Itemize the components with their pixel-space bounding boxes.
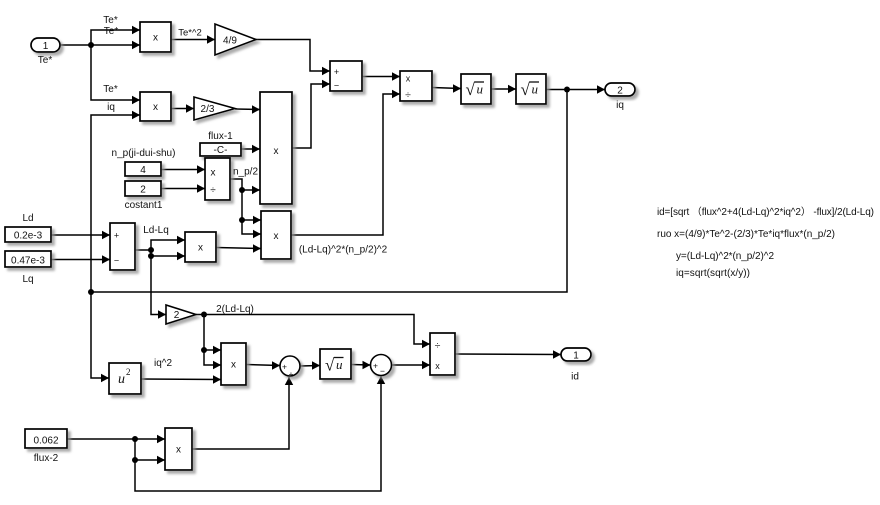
label Te* wire2 xyxy=(104,26,119,37)
constant flux-1 -C- xyxy=(200,143,241,156)
label iq^2 xyxy=(154,358,172,369)
svg-text:iq^2: iq^2 xyxy=(154,358,172,369)
gain 4/9 xyxy=(215,24,256,55)
svg-text:+: + xyxy=(114,231,119,241)
sqrt3 xyxy=(320,349,351,379)
wire sqrt1 to sqrt2 xyxy=(491,85,516,93)
svg-text:n_p(ji-dui-shu): n_p(ji-dui-shu) xyxy=(112,148,176,159)
svg-text:Te*: Te* xyxy=(103,84,118,95)
svg-text:Te*: Te* xyxy=(38,55,53,66)
svg-text:u: u xyxy=(477,82,484,97)
label Ld-Lq xyxy=(143,225,169,236)
wire constant flux-1 to product P1 input2 xyxy=(241,145,260,153)
annotation line 4 xyxy=(676,268,750,279)
wire constant 2 to product U2 input2 xyxy=(161,184,205,192)
node iq feedback junction xyxy=(88,289,94,295)
svg-text:x: x xyxy=(231,360,236,371)
multiply M5 (Ld-Lq squared) xyxy=(185,232,216,262)
svg-text:y=(Ld-Lq)^2*(n_p/2)^2: y=(Ld-Lq)^2*(n_p/2)^2 xyxy=(676,251,774,262)
svg-text:x: x xyxy=(435,361,440,371)
label Lq xyxy=(22,274,33,285)
sum1 (+ -) xyxy=(330,61,362,91)
label Te* under inport 1 xyxy=(38,55,53,66)
wire Ld-Lq to multiply M5 input2 xyxy=(151,250,185,260)
svg-text:÷: ÷ xyxy=(405,89,411,101)
wire u^2 output iq^2 to product M3 input3 xyxy=(141,375,221,383)
svg-text:x: x xyxy=(211,168,216,179)
constant 2 costant1 xyxy=(125,181,161,196)
svg-text:iq: iq xyxy=(616,100,624,111)
svg-text:Te*^2: Te*^2 xyxy=(178,28,201,39)
wire M5 output to P2 input3 xyxy=(216,244,261,252)
svg-text:iq=sqrt(sqrt(x/y)): iq=sqrt(sqrt(x/y)) xyxy=(676,268,750,279)
svg-text:id=[sqrt （flux^2+4(Ld-Lq)^2*iq: id=[sqrt （flux^2+4(Ld-Lq)^2*iq^2） -flux]… xyxy=(657,206,874,218)
product P2 (big 2) xyxy=(261,211,291,259)
wire inport1 to junction xyxy=(60,44,91,46)
node n_p/2 junction 1 xyxy=(239,187,245,193)
svg-text:iq: iq xyxy=(107,102,115,113)
wire flux-2 to multiply M4 input2 xyxy=(135,439,165,464)
sum circle S2 (+ -) xyxy=(371,355,392,377)
sum circle S1 (+ +) xyxy=(280,356,300,379)
svg-text:flux-2: flux-2 xyxy=(34,453,59,464)
outport 1 id xyxy=(561,348,591,361)
wire gain G3 output 2(Ld-Lq) to divide D1 xyxy=(196,315,430,349)
svg-text:Lq: Lq xyxy=(22,274,33,285)
product M1 (Te* x Te*) xyxy=(140,22,171,52)
wire sum1 output to divide D2 x input xyxy=(362,72,400,80)
svg-text:2: 2 xyxy=(126,367,131,377)
multiply M4 (flux^2) xyxy=(165,428,192,470)
wire junction down to product M2 input1 xyxy=(91,45,140,104)
gain 2/3 xyxy=(194,97,235,120)
label Te*^2 xyxy=(178,28,201,39)
wire Ld-Lq down to gain G3 xyxy=(151,256,166,319)
svg-text:2/3: 2/3 xyxy=(201,104,215,115)
svg-text:-C-: -C- xyxy=(214,145,228,156)
svg-text:Ld: Ld xyxy=(22,213,33,224)
wire n_p/2 to P1 input3 xyxy=(242,186,260,194)
svg-text:4/9: 4/9 xyxy=(223,36,237,47)
wire junction to product M1 input1 xyxy=(91,26,140,45)
svg-text:2(Ld-Lq): 2(Ld-Lq) xyxy=(216,304,254,315)
svg-text:0.062: 0.062 xyxy=(33,436,58,447)
svg-text:−: − xyxy=(334,81,339,91)
svg-text:x: x xyxy=(274,146,279,157)
label (Ld-Lq)^2*(n_p/2)^2 xyxy=(299,245,388,256)
label n_p/2 xyxy=(233,167,258,178)
product M3 (3 inputs) xyxy=(221,343,246,385)
product M2 (Te* x iq) xyxy=(140,92,171,121)
svg-text:√: √ xyxy=(325,356,335,375)
svg-text:0.47e-3: 0.47e-3 xyxy=(11,256,45,267)
svg-text:Ld-Lq: Ld-Lq xyxy=(143,225,169,236)
node n_p/2 junction 2 xyxy=(239,217,245,223)
sum2 (+ -) Ld-Lq xyxy=(110,223,135,270)
wire P1 output to sum1 minus input xyxy=(292,80,330,148)
sqrt1 xyxy=(461,74,491,104)
svg-text:+: + xyxy=(334,67,339,77)
svg-text:1: 1 xyxy=(43,41,49,52)
wire gain 4/9 to sum1 plus input xyxy=(256,40,330,76)
constant 0.062 flux-2 xyxy=(25,429,67,448)
label id under outport 1 xyxy=(571,372,579,383)
wire S2 output to divide D1 x input xyxy=(392,361,431,369)
node Te* junction xyxy=(88,42,94,48)
math function u^2 xyxy=(109,363,141,394)
wire constant flux-2 output xyxy=(67,438,135,440)
svg-text:÷: ÷ xyxy=(435,340,441,352)
label iq wire xyxy=(107,102,115,113)
node flux-2 junction 1 xyxy=(132,436,138,442)
divide U2 (n_p/2) xyxy=(205,158,230,200)
label Ld xyxy=(22,213,33,224)
svg-text:2: 2 xyxy=(140,185,146,196)
label 2(Ld-Lq) xyxy=(216,304,254,315)
wire n_p/2 to P2 input1 xyxy=(242,216,261,224)
label iq under outport 2 xyxy=(616,100,624,111)
wire junction to product M1 input2 xyxy=(91,41,140,49)
wire constant 4 to product U2 input1 xyxy=(161,165,205,173)
label Te* wire1 xyxy=(103,15,118,26)
wire iq feedback to product M2 input2 xyxy=(91,111,140,382)
wire M2 output to gain 2/3 xyxy=(171,104,194,112)
svg-text:x: x xyxy=(406,74,411,84)
wire M3 output to sum circle S1 xyxy=(246,361,280,369)
svg-text:x: x xyxy=(153,102,158,113)
svg-text:x: x xyxy=(274,231,279,242)
svg-text:4: 4 xyxy=(140,165,146,176)
divide D1 (divide over x) xyxy=(430,333,455,375)
svg-text:+: + xyxy=(289,369,294,379)
wire constant Ld to sum2 plus input xyxy=(51,231,110,239)
node Ld-Lq junction 2 xyxy=(148,253,154,259)
divide D2 (x over divide) xyxy=(400,71,432,101)
label flux-1 xyxy=(208,131,233,142)
svg-text:u: u xyxy=(532,82,539,97)
inport 1 Te* xyxy=(31,38,60,52)
svg-text:ruo x=(4/9)*Te^2-(2/3)*Te*iq*f: ruo x=(4/9)*Te^2-(2/3)*Te*iq*flux*(n_p/2… xyxy=(657,229,835,240)
wire D1 output to outport 1 xyxy=(455,350,561,358)
svg-text:−: − xyxy=(380,366,385,376)
svg-text:n_p/2: n_p/2 xyxy=(233,167,258,178)
svg-text:1: 1 xyxy=(573,350,579,361)
wire flux-2 to multiply M4 input1 xyxy=(135,435,165,443)
svg-text:x: x xyxy=(176,445,181,456)
gain G3 value 2 xyxy=(166,305,196,324)
wire gain 2/3 to product P1 input1 xyxy=(235,105,260,113)
svg-text:u: u xyxy=(118,372,125,387)
wire S1 output to sqrt3 xyxy=(300,361,320,369)
svg-text:+: + xyxy=(373,361,378,371)
svg-text:(Ld-Lq)^2*(n_p/2)^2: (Ld-Lq)^2*(n_p/2)^2 xyxy=(299,245,388,256)
constant 4 n_p xyxy=(125,162,161,176)
wire U2 output n_p/2 down xyxy=(230,179,261,238)
wire sqrt2 to outport 2 xyxy=(546,85,605,93)
wire M1 output Te*^2 to gain 4/9 xyxy=(171,35,215,43)
wire sum2 output Ld-Lq xyxy=(135,249,151,251)
svg-text:0.2e-3: 0.2e-3 xyxy=(14,231,43,242)
label flux-2 xyxy=(34,453,59,464)
node Ld-Lq junction 1 xyxy=(148,247,154,253)
svg-text:x: x xyxy=(198,243,203,254)
node 2(Ld-Lq) junction 2 xyxy=(201,347,207,353)
wire iq feedback horizontal from sqrt output xyxy=(91,90,567,293)
node 2(Ld-Lq) junction xyxy=(201,312,207,318)
svg-text:2: 2 xyxy=(174,310,180,321)
svg-text:√: √ xyxy=(521,80,531,99)
svg-text:flux-1: flux-1 xyxy=(208,131,233,142)
wire 2(Ld-Lq) down to product M3 input2 xyxy=(204,315,221,370)
constant 0.47e-3 Lq xyxy=(5,251,51,267)
svg-text:−: − xyxy=(114,256,119,266)
label Te* wire3 xyxy=(103,84,118,95)
annotation line 1 xyxy=(657,206,874,218)
svg-text:u: u xyxy=(336,357,343,372)
wire M4 output flux^2 to sum circle S1 xyxy=(192,377,293,449)
svg-text:÷: ÷ xyxy=(210,185,216,196)
product P1 (big) xyxy=(260,92,292,204)
annotation line 2 xyxy=(657,229,835,240)
wire D2 output to sqrt1 xyxy=(432,84,461,92)
wire flux-2 bottom path to sum circle S2 xyxy=(135,376,385,491)
node flux-2 junction 2 xyxy=(132,457,138,463)
svg-text:Te*: Te* xyxy=(103,15,118,26)
svg-text:Te*: Te* xyxy=(104,26,119,37)
label costant1 xyxy=(125,200,163,211)
wire P2 output up to divide D2 divide input xyxy=(291,90,400,235)
wire sqrt3 output to sum circle S2 xyxy=(351,361,371,369)
sqrt2 xyxy=(516,74,546,104)
outport 2 iq xyxy=(605,83,635,96)
wire 2(Ld-Lq) to product M3 input1 xyxy=(204,346,221,354)
annotation line 3 xyxy=(676,251,774,262)
wire constant Lq to sum2 minus input xyxy=(51,255,110,263)
wire Ld-Lq to multiply M5 input1 xyxy=(151,236,185,250)
svg-text:x: x xyxy=(153,33,158,44)
svg-text:√: √ xyxy=(466,80,476,99)
node iq output junction xyxy=(564,87,570,93)
constant 0.2e-3 Ld xyxy=(5,227,51,242)
svg-text:id: id xyxy=(571,372,579,383)
svg-text:costant1: costant1 xyxy=(125,200,163,211)
label n_p(ji-dui-shu) xyxy=(112,148,176,159)
svg-text:+: + xyxy=(282,362,287,372)
svg-text:2: 2 xyxy=(617,85,623,96)
